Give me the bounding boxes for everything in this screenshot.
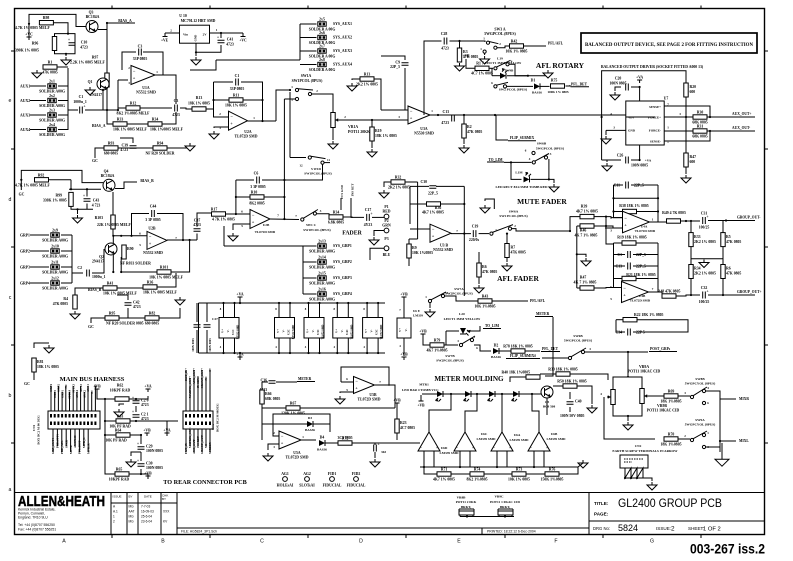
wire c26 row: [602, 159, 621, 161]
wire c19 out: [479, 233, 489, 235]
diode D3: [307, 421, 313, 427]
wire U1C pin bl: [223, 338, 225, 353]
svg-text:22P_5: 22P_5: [428, 192, 438, 196]
wire d4 out: [325, 442, 338, 444]
svg-text:e: e: [9, 98, 12, 104]
wire c15 r: [633, 265, 658, 267]
capacitor C39: [120, 144, 136, 152]
svg-text:PFL/AFL: PFL/AFL: [530, 299, 546, 303]
resistor R76: [545, 468, 559, 477]
svg-text:R62: R62: [117, 384, 124, 388]
wire gc i: [91, 318, 105, 323]
wire r10 r: [264, 196, 284, 198]
svg-text:U7: U7: [664, 97, 669, 101]
svg-text:DRG No:: DRG No:: [593, 526, 610, 531]
svg-text:R66: R66: [265, 392, 272, 396]
svg-text:R50 18K 1% 0805: R50 18K 1% 0805: [557, 379, 587, 383]
switch SW6B2: [532, 154, 549, 164]
wire r93-r94: [118, 147, 153, 149]
svg-text:U1A: U1A: [142, 86, 150, 90]
svg-text:600: 600: [690, 90, 696, 94]
diode D2: [493, 344, 499, 355]
wire rail bottom: [199, 352, 386, 354]
wire d3 r: [313, 424, 330, 432]
svg-text:100N 0805: 100N 0805: [610, 82, 627, 86]
svg-text:GC: GC: [19, 193, 25, 197]
wire flip branch: [496, 115, 508, 140]
svg-text:100N 50V 0805: 100N 50V 0805: [560, 414, 585, 418]
wire r69 out: [678, 395, 690, 397]
wire sw6a out: [512, 229, 570, 231]
svg-text:EARTH SCREW TERMINALS IN ARROW: EARTH SCREW TERMINALS IN ARROW: [612, 449, 678, 453]
svg-text:3: 3: [550, 152, 552, 156]
svg-text:SW1PCOL (8PUS): SW1PCOL (8PUS): [303, 228, 330, 232]
wire led3 path: [501, 394, 503, 432]
svg-text:10K 1%0805 MELF: 10K 1%0805 MELF: [150, 128, 184, 132]
svg-text:R34: R34: [694, 267, 701, 271]
wire u3a in+: [405, 119, 408, 121]
svg-text:C32: C32: [701, 286, 708, 290]
svg-text:8K2 1%0805 MELF: 8K2 1%0805 MELF: [117, 112, 151, 116]
wire SYS_AUX1 left: [300, 23, 317, 25]
svg-text:U4C: U4C: [346, 329, 349, 334]
ground r94: [185, 143, 195, 151]
U2C dots: [278, 302, 280, 304]
connector CN1: [48, 411, 100, 429]
wire q5 c: [553, 385, 563, 387]
wire vr9c legs: [498, 515, 500, 517]
wire c42 d: [127, 308, 129, 318]
junction mix: [719, 440, 721, 442]
svg-text:SW2PCOL (8PUS): SW2PCOL (8PUS): [436, 359, 463, 363]
wire sys_grp feed: [224, 245, 303, 247]
svg-text:2x3: 2x3: [49, 109, 55, 113]
svg-text:R21 18K 1% 0805: R21 18K 1% 0805: [626, 273, 656, 277]
svg-text:47K 0805: 47K 0805: [511, 251, 526, 255]
svg-text:4: 4: [334, 345, 336, 349]
switch SW1A pole2: [295, 97, 298, 100]
ground sw9b: [543, 70, 553, 78]
svg-text:V-: V-: [311, 329, 315, 332]
svg-text:N5532 SMD: N5532 SMD: [136, 91, 156, 95]
junction k: [463, 203, 465, 205]
svg-text:TL072D SMD: TL072D SMD: [358, 398, 381, 402]
junction r92: [20, 179, 22, 181]
svg-text:2: 2: [219, 112, 221, 116]
wire u7 in: [626, 116, 655, 118]
svg-text:SYS_AUX1: SYS_AUX1: [333, 22, 352, 26]
wire sw1c out: [317, 214, 329, 217]
svg-text:−: −: [133, 69, 136, 74]
wire R12 left: [118, 107, 126, 109]
wire c2021: [135, 406, 137, 412]
svg-text:BAS16: BAS16: [532, 91, 542, 95]
U3C dots: [307, 302, 309, 304]
junction U6D: [423, 466, 425, 468]
wire r65 row: [105, 473, 115, 474]
svg-text:100N 0805: 100N 0805: [191, 338, 195, 352]
resistor R94: [153, 142, 167, 151]
wire q5 r50: [577, 386, 592, 404]
wire d3 l: [262, 423, 307, 425]
svg-text:AUX3: AUX3: [20, 114, 30, 118]
svg-text:680 0805: 680 0805: [145, 322, 159, 326]
wire r39 to u4a: [606, 217, 623, 218]
svg-text:2x4: 2x4: [49, 123, 55, 127]
switch SW9B: [494, 60, 511, 70]
svg-text:363: 363: [381, 450, 386, 454]
wire vr8b legs2: [472, 515, 474, 517]
wire U6C leg2: [469, 451, 471, 467]
decoupling block U2C: [275, 318, 295, 339]
svg-text:2x11: 2x11: [51, 261, 58, 265]
wire u4b fb left: [616, 319, 623, 321]
svg-text:R13: R13: [196, 96, 203, 100]
wire out+ l: [708, 220, 755, 222]
svg-text:SOLDER A00G: SOLDER A00G: [39, 119, 65, 123]
wire sw3a to r42: [497, 46, 509, 48]
solder bridge 2x9: [42, 229, 68, 243]
wire U1C pin tr: [234, 303, 236, 318]
svg-text:25-6-04: 25-6-04: [141, 515, 152, 519]
svg-text:SW7B: SW7B: [445, 354, 455, 358]
resistor R75: [551, 84, 565, 88]
svg-text:LM339 SMD: LM339 SMD: [547, 437, 566, 441]
svg-text:3: 3: [589, 347, 591, 351]
wire mesh bottom: [71, 206, 93, 209]
wire r41 r36: [117, 287, 143, 289]
svg-text:MTR_R: MTR_R: [86, 443, 90, 454]
svg-text:1: 1: [156, 70, 158, 74]
wire r33 up: [690, 221, 692, 233]
resistor R1: [43, 61, 57, 70]
svg-text:10K 1%0805: 10K 1%0805: [412, 251, 433, 255]
svg-text:U2A: U2A: [244, 130, 252, 134]
svg-text:FADER: FADER: [342, 231, 362, 237]
svg-text:AUX4: AUX4: [20, 128, 30, 132]
svg-text:R1: R1: [48, 61, 53, 65]
capacitor C20q: [132, 395, 149, 407]
junction r20: [685, 116, 687, 118]
wire r9 row: [409, 238, 418, 240]
resistor R63: [116, 419, 130, 423]
op-amp U6D: [418, 432, 440, 451]
op-amp U2A: [229, 111, 248, 130]
wire c28 out: [450, 41, 486, 42]
svg-text:−: −: [252, 213, 255, 218]
svg-text:12: 12: [299, 164, 303, 168]
junction main dots: [437, 114, 439, 116]
ground below C10: [61, 57, 71, 65]
led L20: [460, 328, 470, 336]
wire vr8b bus: [460, 516, 514, 518]
svg-text:6: 6: [139, 232, 141, 236]
wire u3a in-: [381, 109, 408, 111]
capacitor C34l: [628, 329, 631, 336]
capacitor C42: [125, 301, 141, 309]
svg-text:V-: V-: [226, 329, 230, 332]
svg-text:HOLEsAI: HOLEsAI: [277, 484, 294, 488]
svg-text:47K 0805: 47K 0805: [53, 302, 68, 306]
svg-text:POT11 10KAC CID: POT11 10KAC CID: [628, 370, 661, 374]
svg-text:SOLDER A00G: SOLDER A00G: [42, 239, 68, 243]
junction fb: [612, 197, 614, 199]
svg-text:GRP4: GRP4: [20, 282, 30, 286]
balanced output note box: [581, 33, 757, 53]
wire r46 out: [594, 225, 606, 227]
svg-text:a: a: [9, 487, 12, 493]
svg-text:7: 7: [399, 308, 401, 312]
wire c10 stub: [65, 54, 67, 56]
ground r82: [175, 297, 185, 305]
svg-text:FORCE-: FORCE-: [649, 129, 661, 133]
svg-text:PRINTED: 18:22:12: PRINTED: 18:22:12 6-Dec-2004: [487, 530, 536, 534]
capacitor C20: [626, 84, 629, 91]
wire r62 out: [129, 396, 148, 399]
ground C26h: [602, 163, 612, 171]
wire GRP4 out: [61, 282, 72, 284]
svg-text:B: B: [161, 539, 165, 545]
wire r66 d: [261, 404, 263, 440]
svg-text:+VB: +VB: [93, 385, 101, 389]
capacitor C35: [374, 442, 381, 452]
capacitor C43: [83, 193, 91, 201]
wire r47 d: [685, 167, 687, 174]
svg-text:2: 2: [273, 431, 275, 435]
wire c17 out: [372, 216, 384, 218]
svg-text:4723: 4723: [141, 417, 149, 421]
svg-text:SW7A: SW7A: [454, 287, 464, 291]
wire r40n l: [510, 377, 526, 382]
junction r12: [117, 109, 119, 111]
svg-text:1000u_1: 1000u_1: [92, 275, 106, 279]
title block outline: [15, 492, 765, 494]
svg-text:V+: V+: [364, 329, 368, 333]
wire r72 out: [352, 442, 420, 444]
solder bridge 2x8: [309, 58, 336, 72]
svg-text:C1: C1: [79, 95, 84, 99]
svg-text:R31: R31: [697, 125, 704, 129]
connector FID1: [323, 472, 342, 488]
svg-text:2x8: 2x8: [319, 58, 325, 62]
svg-text:2V: 2V: [203, 32, 208, 36]
svg-text:2x9: 2x9: [52, 229, 58, 233]
ground R19: [367, 149, 377, 157]
svg-text:5W1 C: 5W1 C: [306, 223, 317, 227]
svg-text:+VA: +VA: [144, 385, 151, 389]
wire c28 feed: [424, 41, 442, 115]
svg-text:C13: C13: [442, 110, 449, 114]
underline METER p: [297, 381, 315, 383]
wire sw6a gnd loop: [485, 199, 494, 209]
capacitor C3b: [175, 105, 178, 112]
wire r47k out: [594, 287, 622, 290]
resistor R90: [122, 245, 126, 259]
wire socket loop top: [602, 71, 686, 117]
wire AUX4: [30, 129, 46, 131]
wire grp to c2: [72, 272, 83, 274]
svg-text:+VB: +VB: [417, 404, 425, 408]
svg-text:2K2 1% 0805: 2K2 1% 0805: [356, 83, 378, 87]
op-amp U2Bi: [147, 231, 167, 249]
svg-text:BRKT,: BRKT,: [500, 505, 510, 509]
capacitor C30q: [137, 458, 163, 470]
svg-text:R73: R73: [516, 468, 523, 472]
svg-text:1: 1: [113, 515, 115, 519]
resistor R67: [286, 402, 300, 411]
wire r36 r: [157, 273, 176, 287]
underline TO_LIM n2: [483, 328, 501, 330]
svg-text:R70: R70: [668, 433, 675, 437]
svg-text:U6C: U6C: [481, 432, 488, 436]
svg-text:11: 11: [327, 158, 330, 162]
ground CN2: [647, 482, 657, 490]
svg-text:MIXL: MIXL: [739, 439, 749, 443]
svg-text:R98: R98: [43, 16, 50, 20]
junction lim: [548, 178, 550, 180]
wire r67 r: [300, 407, 395, 409]
svg-text:5 W1D: 5 W1D: [311, 167, 322, 171]
resistor R7k: [505, 244, 509, 258]
svg-text:7: 7: [295, 214, 297, 218]
resistor R95: [105, 312, 119, 321]
power +VB r2: [400, 353, 408, 361]
wire u1a in: [118, 79, 128, 81]
svg-text:18K 1% 0805: 18K 1% 0805: [225, 104, 247, 108]
power +VB q3: [144, 472, 152, 480]
svg-text:R74: R74: [474, 468, 481, 472]
svg-text:+: +: [217, 35, 220, 40]
wire U6A leg1: [496, 451, 498, 467]
op-amp U6C: [454, 432, 476, 451]
wire u10 gnd stub: [195, 52, 197, 56]
wire force- out: [664, 130, 693, 132]
svg-text:GROUP_OUT+: GROUP_OUT+: [737, 290, 762, 294]
op-amp U2Bj: [250, 210, 270, 229]
wire r30n r: [570, 374, 608, 380]
wire lim loop2: [531, 178, 549, 180]
wire c43 top: [86, 189, 88, 196]
svg-text:C27: C27: [212, 317, 218, 321]
wire r38 r: [637, 211, 659, 213]
svg-text:4 7K 1% 0805: 4 7K 1% 0805: [212, 218, 235, 222]
svg-text:Vin: Vin: [183, 32, 188, 36]
svg-text:METER: METER: [536, 312, 550, 316]
wire mixl: [706, 441, 736, 447]
svg-text:1: 1: [667, 126, 669, 130]
svg-text:N5530 SMD: N5530 SMD: [414, 132, 434, 136]
wire pot bot: [627, 416, 629, 421]
svg-text:R103: R103: [95, 216, 104, 220]
resistor R4i: [73, 295, 77, 309]
wire p3: [370, 248, 384, 260]
wire r99 node row: [69, 188, 101, 190]
svg-text:100N 0805: 100N 0805: [146, 449, 163, 453]
switch SW6B n2: [568, 348, 586, 360]
wire right to r47: [685, 117, 687, 153]
svg-text:TL072 SMD: TL072 SMD: [322, 325, 325, 340]
resistor R50n: [563, 384, 577, 388]
svg-text:100N 0805: 100N 0805: [208, 338, 212, 352]
wire R12 drop: [117, 80, 119, 110]
svg-text:7: 7: [652, 287, 654, 291]
wire U4C pin tl: [336, 303, 338, 318]
wire CN1 top pins: [51, 386, 95, 411]
svg-text:18K 1% 0805 MELF: 18K 1% 0805 MELF: [143, 291, 178, 295]
svg-text:N5532 SMD: N5532 SMD: [433, 248, 453, 252]
svg-text:c: c: [9, 295, 12, 301]
wire sw1a drop1: [289, 92, 291, 158]
U4C dots: [336, 302, 338, 304]
wire R98 net: [28, 24, 30, 40]
switch SW3A: [486, 41, 498, 49]
svg-text:GND: GND: [194, 34, 198, 42]
svg-text:1: 1: [302, 435, 304, 439]
wire U2C pin bl: [278, 338, 280, 353]
junction leds: [450, 393, 452, 395]
svg-text:4: 4: [363, 345, 365, 349]
wire r36 d: [722, 279, 724, 296]
wire r19 down: [371, 141, 373, 148]
wire out- l: [708, 294, 755, 296]
svg-text:AAT: AAT: [129, 510, 135, 514]
svg-text:1: 1: [291, 85, 293, 89]
svg-text:18K 1% 0805: 18K 1% 0805: [37, 365, 59, 369]
resistor R22l: [623, 318, 637, 322]
svg-text:BC184A: BC184A: [86, 15, 100, 19]
svg-text:3: 3: [684, 391, 686, 395]
svg-text:TL072D SMD: TL072D SMD: [255, 230, 276, 234]
underline FLIP n2: [506, 358, 540, 360]
wire mix gnd: [719, 447, 721, 452]
svg-text:2x6: 2x6: [319, 31, 325, 35]
wire U4C pin br: [347, 338, 349, 353]
pot VR1A: [331, 113, 339, 128]
svg-text:2x13: 2x13: [318, 240, 326, 244]
svg-text:FLIP_SUBMIX#: FLIP_SUBMIX#: [510, 354, 536, 358]
wire c25 top: [196, 303, 198, 322]
wire down from c19: [463, 234, 465, 296]
wire out-: [707, 130, 755, 132]
svg-text:R40 18K 1%0805: R40 18K 1%0805: [502, 370, 531, 374]
svg-text:R94: R94: [157, 142, 164, 146]
power +VA q: [144, 385, 151, 393]
svg-text:TO_LIM: TO_LIM: [488, 158, 503, 162]
wire Q3 emitter to BIAS_A: [98, 23, 135, 30]
underline TO_LIM: [487, 161, 504, 163]
wire c35 up: [374, 443, 376, 445]
wire cn2 bus: [625, 478, 652, 481]
svg-text:4723: 4723: [441, 47, 449, 51]
svg-text:4 723: 4 723: [92, 204, 101, 208]
wire GRP1: [30, 234, 49, 236]
svg-text:4: 4: [305, 345, 307, 349]
svg-text:100/25: 100/25: [699, 226, 710, 230]
resistor R92: [35, 178, 49, 182]
resistor R10: [250, 195, 264, 199]
resistor R39: [580, 214, 594, 218]
wire SYS_AUX3 left: [300, 50, 317, 52]
wire sw1a out: [311, 94, 333, 112]
svg-text:MC79L12 HRT SMD: MC79L12 HRT SMD: [181, 19, 216, 23]
wire q4 top loop: [21, 170, 103, 182]
wire fb l2: [650, 185, 658, 222]
svg-text:SW2PCOL (8PUS): SW2PCOL (8PUS): [445, 292, 472, 296]
wire r95 r82: [119, 317, 145, 319]
switch SW9B2: [494, 82, 508, 88]
resistor R98: [39, 21, 53, 25]
wire c35 d: [374, 452, 376, 458]
